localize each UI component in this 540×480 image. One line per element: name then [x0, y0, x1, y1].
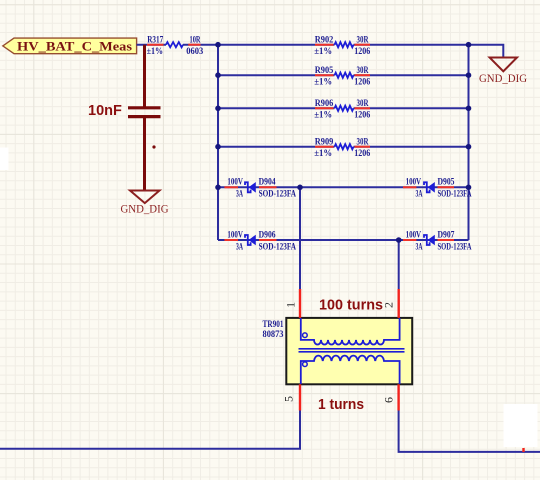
svg-text:D907: D907 [438, 230, 455, 240]
svg-text:TR901: TR901 [263, 320, 284, 330]
svg-text:±1%: ±1% [314, 77, 332, 87]
svg-text:SOD-123FA: SOD-123FA [259, 242, 297, 252]
svg-text:80873: 80873 [263, 330, 284, 340]
transformer TR901 80873 [263, 318, 413, 384]
resistor R902 30R 1206 [314, 35, 370, 57]
junction diode row 2 / pin 2 wire [396, 237, 402, 243]
svg-text:1206: 1206 [354, 149, 370, 159]
overlay patch left [0, 148, 9, 171]
wire port to R317 [137, 44, 166, 46]
junction right bus / diode row 1 [466, 185, 472, 191]
pin 5 [299, 384, 301, 410]
svg-text:±1%: ±1% [147, 47, 164, 57]
wire diode row 2 [218, 239, 469, 241]
svg-text:0603: 0603 [186, 47, 203, 57]
wire diode row1 to transformer pin 1 [299, 187, 301, 289]
junction left bus / diode row 1 [215, 185, 221, 191]
pin 6 [397, 384, 399, 410]
diode D906 100V 3A SOD-123FA [224, 230, 296, 252]
diode D905 100V 3A SOD-123FA [403, 178, 472, 200]
svg-text:30R: 30R [357, 137, 369, 147]
svg-text:GND_DIG: GND_DIG [121, 204, 169, 216]
ground GND_DIG top right [479, 58, 527, 85]
diode D904 100V 3A SOD-123FA [224, 178, 296, 200]
svg-text:D904: D904 [259, 178, 276, 188]
junction left bus / R909 row [215, 144, 221, 150]
wire diode row 1 [218, 186, 469, 188]
junction left bus / R906 row [215, 106, 221, 112]
svg-text:3A: 3A [416, 242, 423, 252]
wire net HV_BAT_C_Meas to capacitor [143, 45, 146, 107]
svg-text:1: 1 [283, 302, 297, 308]
port HV_BAT_C_Meas [3, 38, 137, 54]
svg-text:1206: 1206 [354, 111, 370, 121]
svg-text:±1%: ±1% [314, 149, 332, 159]
svg-text:±1%: ±1% [314, 47, 332, 57]
wire to top-right ground [469, 45, 504, 58]
capacitor 10nF [88, 103, 161, 148]
svg-text:SOD-123FA: SOD-123FA [259, 190, 297, 200]
wire transformer pin 5 to bottom left [0, 411, 300, 449]
svg-text:100V: 100V [406, 178, 422, 188]
svg-text:R902: R902 [315, 35, 334, 45]
diode D907 100V 3A SOD-123FA [403, 230, 472, 252]
svg-text:R317: R317 [147, 35, 163, 45]
resistor R905 30R 1206 [314, 66, 370, 88]
wire diode row2 to transformer pin 2 [398, 240, 400, 289]
svg-text:±1%: ±1% [314, 111, 332, 121]
svg-text:30R: 30R [357, 99, 369, 109]
svg-text:1206: 1206 [354, 47, 370, 57]
pin 1 [299, 289, 301, 318]
svg-text:D906: D906 [259, 230, 276, 240]
ground GND_DIG left [121, 191, 169, 216]
wire left bus vertical [217, 45, 219, 240]
resistor R317 10R 0603 [147, 35, 218, 57]
wire right bus vertical [468, 45, 470, 240]
svg-text:SOD-123FA: SOD-123FA [438, 242, 472, 252]
wire capacitor to ground [143, 117, 146, 191]
svg-text:3A: 3A [236, 242, 243, 252]
junction right bus / R902 row [466, 42, 472, 48]
junction right bus / R906 row [466, 106, 472, 112]
svg-text:100 turns: 100 turns [319, 298, 383, 314]
svg-text:10nF: 10nF [88, 103, 122, 119]
wire row R905 [218, 74, 335, 76]
svg-text:6: 6 [382, 397, 396, 403]
resistor R909 30R 1206 [314, 137, 370, 159]
svg-text:30R: 30R [357, 66, 369, 76]
svg-text:2: 2 [381, 302, 395, 308]
svg-text:30R: 30R [357, 35, 369, 45]
svg-text:10R: 10R [190, 35, 201, 45]
svg-text:3A: 3A [236, 190, 243, 200]
overlay patch bottom right [504, 404, 538, 447]
svg-text:100V: 100V [227, 230, 243, 240]
resistor R906 30R 1206 [314, 99, 370, 121]
wire row R909 [218, 146, 335, 148]
svg-text:HV_BAT_C_Meas: HV_BAT_C_Meas [17, 39, 132, 53]
svg-text:1206: 1206 [354, 77, 370, 87]
junction right bus / R905 row [466, 72, 472, 78]
svg-text:R909: R909 [315, 137, 334, 147]
svg-text:5: 5 [281, 396, 295, 402]
svg-text:R905: R905 [315, 66, 334, 76]
svg-text:R906: R906 [315, 99, 334, 109]
pin 2 [398, 289, 400, 318]
svg-text:SOD-123FA: SOD-123FA [438, 190, 472, 200]
svg-text:3A: 3A [416, 190, 423, 200]
junction right bus / R909 row [466, 144, 472, 150]
wire transformer pin 6 to bottom right [399, 411, 540, 452]
svg-text:GND_DIG: GND_DIG [479, 73, 527, 85]
wire row R906 [218, 107, 335, 109]
svg-text:1 turns: 1 turns [318, 397, 364, 413]
svg-text:100V: 100V [406, 230, 422, 240]
junction left bus / R902 row [215, 42, 221, 48]
pin mark bottom right [522, 448, 524, 452]
svg-text:D905: D905 [438, 178, 455, 188]
junction left bus / R905 row [215, 72, 221, 78]
wire row R902 [218, 44, 335, 46]
junction diode row 1 / pin 1 wire [297, 185, 303, 191]
svg-text:100V: 100V [227, 178, 243, 188]
